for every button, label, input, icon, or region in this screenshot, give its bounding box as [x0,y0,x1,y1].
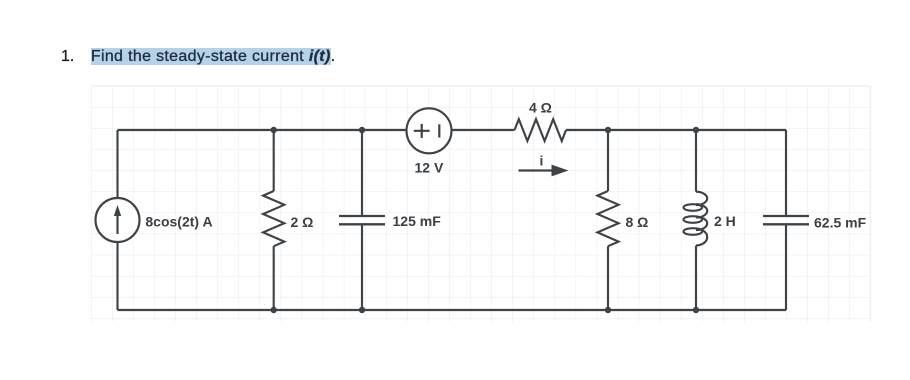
capacitor C 62.5mF plates [763,216,809,224]
junction node bottom L2H [693,307,699,313]
resistor R 2ohm lead top [273,130,275,191]
current arrow i [519,165,569,177]
voltage source V1 minus bar [438,124,440,137]
resistor R 8ohm zigzag [597,191,618,246]
inductor L 2H coil bumps [684,192,708,246]
svg-text:2 H: 2 H [714,213,736,229]
resistor R 2ohm zigzag [263,191,284,246]
svg-text:8cos(2t) A: 8cos(2t) A [145,213,212,229]
svg-text:4 Ω: 4 Ω [529,99,552,115]
wire left edge upper [116,130,118,198]
wire right edge upper [785,130,787,216]
junction node bottom R2 [271,307,277,313]
wire top-left horizontal [118,129,407,131]
junction node bottom C125 [359,307,365,313]
capacitor C 125mF lead top [361,130,363,216]
resistor R 2ohm lead bottom [273,246,275,310]
problem statement [61,47,335,66]
wire bottom horizontal [118,309,787,311]
inductor L 2H lead bottom [695,246,697,311]
resistor R 8ohm lead bottom [607,246,609,310]
svg-text:12 V: 12 V [415,160,444,176]
junction node top L2H [693,127,699,133]
svg-text:8 Ω: 8 Ω [626,214,649,230]
capacitor C 125mF plates [339,216,385,224]
svg-text:62.5 mF: 62.5 mF [814,215,867,231]
voltage source V1 plus sign [414,124,440,138]
capacitor C 125mF lead bottom [361,224,363,310]
wire top-right horizontal [566,129,786,131]
svg-text:125 mF: 125 mF [393,213,442,229]
resistor R 4ohm zigzag [515,119,567,141]
junction node bottom R8 [605,307,611,313]
svg-text:i: i [540,153,544,169]
wire right edge lower [785,225,787,311]
inductor L 2H left loops [684,204,703,211]
wire top between source and 4ohm [452,129,515,131]
junction node top R8 [605,127,611,133]
current source I1 circle [96,198,140,242]
svg-text:2 Ω: 2 Ω [291,214,314,230]
current source I1 arrow [114,205,121,234]
junction node top R2 [271,127,277,133]
inductor L 2H lead top [695,130,697,192]
wire left edge lower [116,242,118,310]
voltage source V1 12V circle [407,108,452,153]
junction node top C125 [359,127,365,133]
resistor R 8ohm lead top [607,130,609,191]
